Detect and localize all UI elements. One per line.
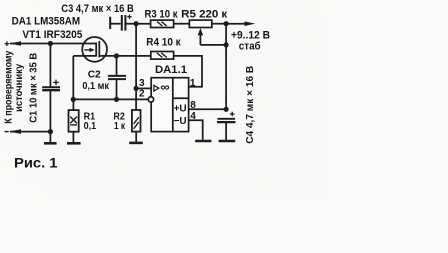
capacitor C4 (217, 119, 236, 122)
wire pin4 to ground (189, 120, 203, 140)
wire R4 right to pin1 (174, 56, 202, 87)
label minus at left arrow (5, 131, 9, 133)
ground C1 (49, 132, 51, 143)
svg-text:8: 8 (190, 100, 196, 111)
wire VT1 source stub (73, 55, 96, 57)
resistor R3 (151, 20, 174, 27)
svg-text:+U: +U (174, 104, 187, 115)
resistor R5 (189, 20, 211, 27)
svg-text:C3 4,7 мк × 16 В: C3 4,7 мк × 16 В (61, 3, 134, 15)
svg-text:2: 2 (139, 89, 145, 100)
node pin8 junction dot (224, 107, 229, 112)
node drain junction dot (114, 53, 119, 58)
node wiper junction dot (224, 42, 229, 47)
node C2 bottom dot (114, 97, 119, 102)
wire top rail (125, 23, 150, 25)
svg-text:источнику: источнику (14, 63, 25, 111)
svg-text:C4 4,7 мк × 16 В: C4 4,7 мк × 16 В (245, 66, 256, 144)
ground DA1.1 pin4 (195, 140, 211, 143)
label plus at left arrow (5, 41, 10, 46)
svg-text:DA1 LM358AM: DA1 LM358AM (12, 15, 81, 27)
capacitor C3 (109, 17, 111, 29)
svg-text:R3 10 к: R3 10 к (145, 9, 178, 21)
svg-text:C2: C2 (88, 70, 101, 81)
node left arrow top (9, 41, 21, 46)
node output arrow (226, 23, 249, 25)
svg-text:R5 220 к: R5 220 к (181, 9, 228, 21)
svg-text:0,1 мк: 0,1 мк (82, 81, 109, 92)
wire C1 column bottom (49, 91, 51, 131)
resistor R2 (132, 110, 141, 132)
wire pin3 (136, 87, 151, 89)
transistor VT1 circle (82, 37, 107, 62)
wire column to R2 (135, 88, 137, 110)
wire output column (225, 24, 227, 110)
op-amp DA1.1 box (151, 78, 188, 132)
svg-text:4: 4 (190, 111, 196, 122)
svg-text:∞: ∞ (160, 80, 169, 94)
svg-text:3: 3 (139, 78, 145, 89)
wire R3-R5 (174, 23, 190, 25)
wire left column down (72, 56, 74, 100)
svg-text:Рис. 1: Рис. 1 (14, 156, 58, 171)
ground R2 (135, 132, 137, 142)
node C1 bottom junction dot (48, 129, 53, 134)
svg-text:1 к: 1 к (114, 121, 126, 132)
ground R1 (72, 132, 74, 143)
svg-text:R4 10 к: R4 10 к (146, 36, 181, 48)
wire bottom-left rail (10, 131, 50, 133)
wire pin2 rail (73, 98, 147, 100)
node pin3 junction dot (134, 86, 139, 91)
svg-text:0,1: 0,1 (84, 121, 97, 132)
ground C4 (219, 140, 236, 143)
capacitor C2 (116, 56, 118, 76)
svg-text:C1 10 мк × 35 В: C1 10 мк × 35 В (28, 53, 39, 123)
wire C1 column top (49, 44, 51, 87)
wire pin8 (189, 108, 227, 110)
transistor VT1 channel bar (95, 43, 97, 57)
wire VT1 drain to R4 (99, 55, 151, 57)
svg-text:1: 1 (190, 78, 196, 89)
node left arrow bottom (9, 129, 21, 134)
op-amp symbol triangle and infinity (154, 85, 159, 91)
node output junction dot (224, 21, 229, 26)
transistor VT1 gate bar (98, 41, 100, 57)
R5 wiper arrow (198, 28, 203, 35)
wire top-left rail to VT1 (10, 43, 96, 45)
svg-text:VT1 IRF3205: VT1 IRF3205 (22, 29, 82, 41)
svg-text:−U: −U (174, 116, 187, 127)
capacitor C1 (42, 87, 60, 90)
svg-text:стаб: стаб (239, 41, 261, 53)
node pin2 rail left dot (71, 97, 76, 102)
wire R5 right (212, 23, 226, 25)
wire column C3 to pin3 (135, 24, 137, 89)
svg-text:DA1.1: DA1.1 (155, 64, 187, 76)
resistor R4 (151, 52, 174, 60)
node C3/R3 junction dot (134, 21, 139, 26)
op-amp input bubble pin2 (148, 97, 153, 102)
svg-text:К проверяемому: К проверяемому (4, 50, 15, 123)
resistor R1 (72, 99, 74, 110)
transistor VT1 substrate arrow (84, 49, 91, 51)
wire C1 drop junction dot (48, 41, 53, 46)
